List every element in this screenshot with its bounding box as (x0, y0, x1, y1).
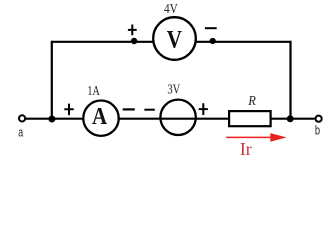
resistor R (229, 111, 271, 126)
svg-text:a: a (18, 124, 23, 139)
node dot left of voltmeter (131, 38, 137, 44)
current arrow Ir (226, 133, 286, 142)
svg-text:b: b (315, 122, 320, 137)
wire left vertical (51, 41, 53, 119)
wire bottom horizontal (25, 118, 315, 120)
junction dot bottom-left (48, 116, 55, 123)
svg-text:Ir: Ir (240, 139, 252, 159)
svg-text:3V: 3V (167, 82, 180, 97)
wire right vertical (289, 41, 291, 119)
terminal b (316, 116, 322, 122)
svg-text:1A: 1A (87, 84, 100, 99)
source plus sign (199, 103, 208, 115)
ammeter circle (83, 101, 118, 136)
voltmeter plus sign (128, 25, 137, 36)
svg-text:V: V (167, 27, 182, 54)
source minus sign (144, 109, 154, 111)
svg-text:4V: 4V (164, 2, 178, 17)
wire top horizontal (52, 41, 291, 43)
terminal a (19, 115, 25, 121)
junction dot bottom-right (287, 115, 294, 122)
svg-text:A: A (92, 104, 108, 130)
voltmeter circle (153, 17, 196, 60)
svg-text:R: R (247, 94, 256, 109)
node dot right of voltmeter (210, 38, 216, 44)
voltmeter minus sign (205, 27, 217, 29)
ammeter plus sign (64, 104, 73, 116)
ammeter minus sign (123, 108, 135, 110)
voltage source circle 3V (160, 100, 195, 135)
